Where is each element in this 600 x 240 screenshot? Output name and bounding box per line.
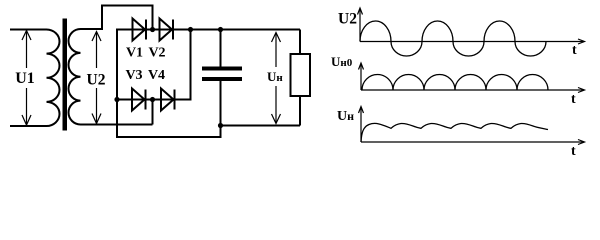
node: V1-V2 junction xyxy=(150,27,155,32)
axis Uн vertical xyxy=(359,107,364,143)
waveform Uн0 rectified humps xyxy=(362,74,548,90)
wire: secondary bottom lead xyxy=(81,124,153,126)
svg-text:t: t xyxy=(571,144,576,159)
axis Uн horizontal t xyxy=(361,140,585,145)
diode V2 xyxy=(160,19,174,41)
wire: bridge right vertical xyxy=(190,30,192,101)
wire: bridge left vertical xyxy=(116,29,118,138)
svg-text:t: t xyxy=(571,92,576,107)
diode V3 xyxy=(132,89,146,111)
svg-text:V4: V4 xyxy=(148,68,165,83)
wire: secondary top lead to riser xyxy=(81,6,103,30)
transformer primary winding L1 xyxy=(47,30,60,127)
capacitor C1 top lead xyxy=(220,30,222,67)
svg-text:U1: U1 xyxy=(15,70,35,87)
node: capacitor bottom xyxy=(218,123,223,128)
wire: top bypass to V1-V2 node xyxy=(101,6,153,30)
wire: primary bottom lead xyxy=(10,125,47,127)
svg-text:U2: U2 xyxy=(87,72,106,89)
wire: riser to V3-V4 node xyxy=(152,100,154,125)
voltage arrow U1 xyxy=(22,31,31,126)
wire: primary top lead xyxy=(10,29,47,31)
capacitor C1 bottom lead xyxy=(220,81,222,126)
svg-text:Uн: Uн xyxy=(267,69,283,84)
node: rail at bridge right xyxy=(188,27,193,32)
capacitor C1 plates xyxy=(202,67,242,71)
wire: bottom diode row xyxy=(117,99,191,101)
wire: bottom rail with jog xyxy=(116,126,300,138)
axis Uн0 horizontal t xyxy=(361,88,585,93)
node: bridge left at bottom row xyxy=(114,97,119,102)
svg-text:Uн: Uн xyxy=(337,109,354,124)
svg-text:U2: U2 xyxy=(338,11,357,28)
voltage arrow U2 xyxy=(92,32,101,124)
axis U2 vertical xyxy=(358,8,363,42)
waveform Uн filtered ripple xyxy=(361,123,548,142)
svg-text:V3: V3 xyxy=(125,68,142,83)
svg-text:V1: V1 xyxy=(126,46,143,61)
svg-text:V2: V2 xyxy=(148,46,165,61)
svg-text:Uн0: Uн0 xyxy=(331,54,353,69)
transformer secondary winding L2 xyxy=(68,29,80,125)
diode V4 xyxy=(161,89,175,111)
wire: top diode row / positive rail xyxy=(116,29,300,31)
transformer core xyxy=(63,19,68,131)
axis U2 horizontal t xyxy=(360,39,585,44)
node: rail at capacitor xyxy=(218,27,223,32)
svg-text:t: t xyxy=(572,43,577,58)
waveform U2 sine xyxy=(360,21,546,56)
axis Uн0 vertical xyxy=(359,63,364,90)
node: V3-V4 junction xyxy=(150,97,155,102)
voltage arrow Uн xyxy=(272,33,281,124)
resistor Rн load xyxy=(299,30,301,55)
diode V1 xyxy=(133,19,147,41)
